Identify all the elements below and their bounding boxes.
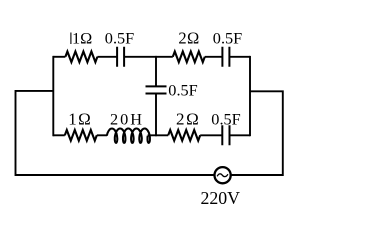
wire inner-right vertical (249, 56, 251, 136)
stray vertical tick before 1Ω label (70, 33, 72, 45)
wire capacitor to right node (top) (229, 56, 250, 58)
AC source tilde (217, 174, 228, 177)
svg-text:20H: 20H (110, 110, 144, 129)
svg-text:1Ω: 1Ω (68, 110, 92, 129)
resistor 2Ω (bottom right) (168, 130, 200, 141)
wire capacitor to node B and on to 2Ω resistor (124, 56, 173, 58)
wire from source, bottom right corner, outer-right vertical and right stub (231, 91, 283, 175)
capacitor 0.5F (top right) plates (222, 47, 229, 67)
wire resistor to capacitor (bottom right) (200, 134, 222, 136)
capacitor 0.5F (top left) plates (117, 47, 124, 67)
wire middle vertical lower segment (155, 94, 157, 137)
capacitor 0.5F (middle) plates (146, 86, 167, 93)
resistor 1Ω (bottom left) (65, 130, 97, 141)
svg-text:2Ω: 2Ω (176, 110, 200, 129)
svg-text:0.5F: 0.5F (105, 28, 134, 47)
wire resistor to inductor (97, 134, 107, 136)
svg-text:2Ω: 2Ω (178, 28, 199, 47)
svg-text:220V: 220V (201, 188, 241, 208)
svg-text:0.5F: 0.5F (213, 28, 242, 47)
svg-text:1Ω: 1Ω (72, 28, 92, 47)
resistor 1Ω (top left) (65, 52, 97, 63)
wire resistor to capacitor (top left) (97, 56, 117, 58)
wire top branch left lead (53, 56, 65, 58)
svg-text:0.5F: 0.5F (168, 80, 197, 99)
wire left stub, outer-left vertical and bottom wire to source (16, 91, 215, 175)
wire middle vertical upper segment (155, 56, 157, 87)
capacitor 0.5F (bottom right) plates (222, 125, 229, 145)
wire resistor to capacitor (top right) (205, 56, 223, 58)
AC source 220V circle (215, 167, 231, 183)
wire inductor to middle node and on to 2Ω resistor (148, 134, 169, 136)
svg-text:0.5F: 0.5F (211, 110, 240, 129)
wire inner-left vertical (52, 56, 54, 136)
wire capacitor to right node (bottom) (230, 134, 251, 136)
inductor 20H coil (107, 129, 150, 143)
wire bottom branch left lead (53, 134, 65, 136)
resistor 2Ω (top right) (173, 52, 205, 63)
